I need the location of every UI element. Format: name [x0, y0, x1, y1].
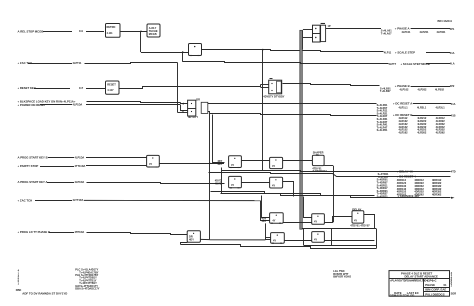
- node title cell IBM CORP: [425, 288, 446, 292]
- node title cell bottom left: [390, 293, 415, 297]
- gate U1 (REL STOP latch): [106, 24, 121, 38]
- svg-text:4LPT11: 4LPT11: [73, 61, 83, 65]
- gate U18: [271, 233, 285, 244]
- wire L1 left segment: [43, 31, 72, 33]
- gate U8 (prog start OR): [147, 155, 160, 167]
- node net label on L10: [75, 230, 85, 234]
- wire L10 to gate U17: [87, 233, 188, 235]
- wire L8 left segment: [47, 182, 74, 184]
- node junction J3 on U1-U3 wire: [182, 51, 184, 53]
- title block divider h1: [389, 278, 450, 280]
- gate U2 (inverter block): [147, 24, 160, 37]
- node L9 signal label + ZAC TCH (second): [18, 198, 33, 202]
- svg-text:4Y: 4Y: [272, 183, 275, 187]
- svg-text:4LP1DA: 4LP1DA: [75, 180, 85, 184]
- wire U6 output phase B line: [283, 84, 380, 86]
- svg-text:+ ZAC TCH: + ZAC TCH: [18, 198, 33, 202]
- wire FF U5 input stub 1: [303, 29, 313, 31]
- svg-text:4LR362: 4LR362: [436, 131, 446, 135]
- wire vertical from bus B4 to U15 input: [304, 197, 312, 218]
- node L4 signal label + BLKSPACE LOAD KEY: [18, 100, 76, 104]
- wire U13 output down to bus: [283, 182, 294, 197]
- wire L7 left segment: [40, 166, 74, 168]
- svg-text:BD4 4A2111: BD4 4A2111: [438, 19, 453, 23]
- node O8 label + DC RESET: [397, 174, 416, 178]
- node net label on L7: [75, 164, 86, 168]
- svg-text:4LA: 4LA: [450, 62, 455, 66]
- node O6 destination tag: [451, 113, 456, 117]
- node net label on L8: [75, 180, 85, 184]
- wire L7 to gate U8: [86, 165, 147, 167]
- svg-text:4Y: 4Y: [231, 183, 234, 187]
- svg-text:+ DC RESET 4: + DC RESET 4: [397, 174, 416, 178]
- wire L6 left segment: [48, 157, 74, 159]
- wire feedback loop right vertical: [376, 229, 378, 249]
- wire scale step mcgb long line: [183, 62, 389, 64]
- svg-text:4LPT7: 4LPT7: [389, 62, 397, 66]
- wire O2 right segment: [426, 52, 450, 54]
- node O6 label + DC RESET B: [393, 113, 412, 117]
- node title row 2: [405, 274, 438, 278]
- wire bus B4: [221, 194, 451, 198]
- wire L2 long line to corner: [85, 63, 178, 64]
- svg-text:PUL) DBEDGS: PUL) DBEDGS: [425, 292, 444, 296]
- node label above U11 SHAPER: [313, 151, 324, 157]
- gate U10 (advance gate B): [270, 157, 283, 168]
- svg-text:+PLA4YDYTDFDAN4RRDYLT4D4(1P4)+: +PLA4YDYTDFDAN4RRDYLT4D4(1P4)+C: [390, 278, 437, 282]
- svg-text:SOR: SOR: [451, 291, 457, 295]
- wire vertical net V2 from U7 output B down: [209, 114, 211, 240]
- svg-text:4LR262: 4LR262: [417, 131, 427, 135]
- node O4 label + PHASE B: [395, 84, 410, 88]
- svg-text:41B: 41B: [451, 113, 456, 117]
- wire O3 right segment: [426, 63, 450, 65]
- svg-text:4Y: 4Y: [314, 220, 317, 224]
- wire L9 left segment: [35, 200, 72, 202]
- svg-text:117: 117: [79, 86, 84, 90]
- node O3 label + SCALE STEP MCGB: [401, 62, 430, 66]
- svg-text:4LP11: 4LP11: [384, 51, 392, 55]
- node title row 1: [401, 272, 433, 276]
- svg-text:A PROG START KEY A: A PROG START KEY A: [18, 180, 48, 184]
- wire FF U5 input stub 2: [303, 37, 313, 39]
- wire U14 output to U15: [283, 222, 312, 224]
- title block divider v1: [423, 278, 425, 296]
- svg-text:4Y: 4Y: [273, 239, 276, 243]
- svg-text:+ RESET KEY: + RESET KEY: [18, 86, 36, 90]
- gate U17 (phase gate): [187, 231, 200, 242]
- node O6 net name table: [399, 116, 446, 134]
- wire U7 output B (DC reset B): [208, 112, 377, 116]
- node O2 label + SCALE STEP: [395, 51, 415, 55]
- node net label on L9: [73, 198, 84, 202]
- wire U5 output phase A line: [326, 28, 381, 30]
- svg-text:4LR3L1: 4LR3L1: [436, 106, 446, 110]
- svg-text:S+4LR51: S+4LR51: [377, 128, 388, 132]
- node O4 net name row: [400, 88, 445, 92]
- svg-text:4DYD: 4DYD: [215, 181, 222, 185]
- wire U7 output A (DC reset A): [208, 103, 377, 105]
- svg-text:4Y: 4Y: [272, 219, 275, 223]
- svg-text:+ SCALE STEP MCGB: + SCALE STEP MCGB: [401, 62, 430, 66]
- gate U15: [312, 214, 325, 225]
- svg-text:+ PHASE B: + PHASE B: [395, 84, 410, 88]
- node label above U16 DELAY: [352, 207, 361, 211]
- node net label on L2: [73, 61, 83, 65]
- wire bus B1 (cluster to delay): [222, 171, 451, 172]
- wire vertical net V1 from J2 down to DC reset A line: [262, 50, 264, 171]
- svg-text:4DR362: 4DR362: [432, 193, 442, 197]
- node bottom center legend: [333, 269, 351, 278]
- svg-text:+ DC RESET A: + DC RESET A: [393, 102, 412, 106]
- svg-text:ADF TO DV RAMNDA ST DVY1YD: ADF TO DV RAMNDA ST DVY1YD: [22, 292, 67, 296]
- node O9 arrowhead: [451, 197, 455, 199]
- wire vertical J3 down: [182, 52, 184, 62]
- gate U11 (shaper): [312, 155, 324, 165]
- node O4 net names stack: [380, 86, 391, 93]
- node L8 signal label + PROG START KEY A: [18, 180, 48, 184]
- wire U10 output to U11: [283, 160, 313, 162]
- svg-text:PHASE: PHASE: [425, 283, 435, 287]
- wire L5 stub into U7: [181, 105, 188, 111]
- wire U12 output to U13: [241, 182, 269, 184]
- flip-flop U7 (DC reset FF) pin marks: [182, 102, 184, 114]
- node label under U11: [312, 167, 327, 173]
- svg-text:111: 111: [79, 29, 84, 33]
- node pin labels at U12 input: [215, 178, 222, 185]
- node net label on L6: [75, 155, 85, 159]
- svg-text:+ PHASE A: + PHASE A: [395, 27, 410, 31]
- svg-text:+ DELAY 4X: + DELAY 4X: [397, 169, 413, 173]
- wire L3 left segment: [34, 88, 70, 90]
- svg-text:4.117: 4.117: [107, 88, 114, 92]
- wire vertical from L2 corner to FF U7 input: [177, 63, 179, 113]
- wire U3 output long line (scale step): [202, 50, 384, 52]
- wire bottom rail R1 (to U18): [210, 239, 266, 241]
- delay element U16: [352, 211, 364, 223]
- wire U18 input stub: [266, 237, 271, 239]
- node O5 net name row: [399, 106, 446, 110]
- svg-text:4LP101: 4LP101: [402, 30, 412, 34]
- wire L4 segment to FF U7: [87, 102, 181, 103]
- wire feedback loop left vertical: [303, 229, 305, 246]
- wire feedback loop inner vertical: [331, 229, 333, 246]
- gate U3 (single-shot): [189, 44, 202, 56]
- node bottom caption row: [22, 292, 67, 296]
- svg-text:4LP201: 4LP201: [420, 30, 430, 34]
- node O2 destination tag: [450, 51, 455, 55]
- wire L5 segment to FF U7: [86, 104, 180, 106]
- svg-text:4Y: 4Y: [354, 219, 357, 223]
- node O5 destination tag: [451, 102, 456, 106]
- svg-text:RETRO: RETRO: [107, 25, 116, 29]
- gate U9 (advance gate A): [229, 156, 242, 168]
- node L5 signal label + POWER ON RESET: [18, 103, 46, 107]
- wire L10 left segment: [49, 232, 74, 234]
- wire vertical V5: [221, 168, 223, 195]
- wire J1 to gate U3: [141, 52, 189, 54]
- svg-text:4DY: 4DY: [262, 219, 267, 223]
- power rail thick vertical bus: [300, 30, 303, 229]
- svg-text:S+4DR31: S+4DR31: [377, 195, 389, 199]
- node label under U6: [263, 95, 284, 99]
- wire L6 to gate U8: [86, 157, 147, 159]
- node title cell DATE LAST EC: [394, 291, 419, 295]
- title block divider h3: [424, 291, 450, 293]
- node L2 signal label + ZAC TCH: [18, 61, 33, 65]
- wire J1 down: [140, 31, 142, 52]
- wire vertical V6 from bus B3 to U14: [262, 196, 270, 218]
- svg-text:DR: DR: [196, 97, 200, 101]
- node O3 net label: [389, 62, 397, 66]
- wire L1 to gate U1: [86, 31, 104, 33]
- svg-text:4Y: 4Y: [272, 164, 275, 168]
- svg-text:1P: 1P: [328, 24, 331, 28]
- node bottom-left revision column: [18, 269, 20, 286]
- node net label on L5: [73, 102, 83, 106]
- node title cell PHASE 01: [425, 283, 447, 287]
- node O5-O6 left net names column: [377, 103, 388, 132]
- svg-text:A REL STOP MCGB: A REL STOP MCGB: [18, 29, 44, 33]
- svg-text:MCGB: MCGB: [149, 32, 157, 36]
- title block divider h2: [424, 287, 450, 289]
- svg-text:4DY: 4DY: [217, 162, 222, 166]
- node O9 label: [398, 194, 420, 198]
- svg-text:DBK: DBK: [16, 288, 22, 292]
- svg-text:4LP301: 4LP301: [437, 30, 447, 34]
- pin label U5 out: [328, 24, 331, 28]
- node L1 signal label A REL STOP MCGB: [18, 29, 44, 33]
- gate U19: [312, 232, 325, 243]
- node O8 net name table: [397, 178, 442, 196]
- node L7 signal label + PARITY STOP: [18, 164, 39, 168]
- node O8 left net names column: [377, 178, 389, 199]
- wire U11 output: [324, 165, 333, 167]
- node label under U16: [350, 223, 370, 227]
- svg-text:ORMAYB EDYLOD: ORMAYB EDYLOD: [390, 293, 415, 297]
- svg-text:DBA S+4TDADC17Y: DBA S+4TDADC17Y: [75, 287, 99, 291]
- svg-text:4LP102: 4LP102: [400, 88, 410, 92]
- wire O4 right segment: [411, 86, 450, 88]
- svg-text:01: 01: [444, 283, 448, 287]
- wire L4 stub into U7: [181, 103, 188, 104]
- svg-text:+ ADVANCE 4DY: + ADVANCE 4DY: [398, 194, 420, 198]
- svg-text:41A: 41A: [450, 51, 455, 55]
- node junction J4: [209, 163, 211, 165]
- node O2 net label: [384, 51, 392, 55]
- svg-text:41A: 41A: [451, 102, 456, 106]
- svg-text:+ SCALE STEP: + SCALE STEP: [395, 51, 415, 55]
- node O7 label + DELAY: [397, 169, 413, 173]
- wire U9 output to U10: [241, 160, 269, 162]
- flip-flop U5 (phase A FF): [313, 25, 321, 42]
- wire O6 right segment: [412, 115, 451, 117]
- wire vertical V7 to U18 inputs: [265, 223, 267, 240]
- svg-text:4LTT1DA: 4LTT1DA: [73, 198, 84, 202]
- node O7 net names stack: [378, 172, 389, 179]
- svg-text:A PROG START KEY B: A PROG START KEY B: [18, 156, 48, 160]
- wire feedback loop bottom edge: [304, 245, 377, 247]
- svg-text:4LP1DA: 4LP1DA: [75, 155, 85, 159]
- svg-text:4P1: 4P1: [450, 27, 455, 31]
- svg-text:BWYOR YOHO: BWYOR YOHO: [333, 275, 351, 279]
- node bottom-left tag DBK: [16, 288, 22, 292]
- node net label 4LP11 on L1: [79, 29, 84, 33]
- node O1 destination tag: [450, 27, 455, 31]
- gate U14: [270, 213, 284, 224]
- node top-right sheet reference: [438, 19, 453, 23]
- svg-text:4DYDTY: 4DYDTY: [188, 115, 198, 119]
- wire U8 output to gate U9: [159, 163, 224, 165]
- wire feedback loop horizontal: [302, 228, 377, 230]
- wire U4 output jog: [119, 87, 261, 89]
- wire U17 output to bottom rail: [200, 238, 209, 240]
- node title code row: [390, 278, 437, 282]
- svg-text:+ PROG LD TT PHASE B: + PROG LD TT PHASE B: [18, 230, 51, 234]
- svg-text:+ PARITY STOP: + PARITY STOP: [18, 164, 39, 168]
- gate U4 (reset key block): [106, 81, 120, 94]
- node L3 signal label + RESET KEY: [18, 86, 36, 90]
- svg-text:4LR1L1: 4LR1L1: [399, 106, 409, 110]
- node O4 destination tag: [450, 84, 455, 88]
- node junction J2 on U3 output: [262, 49, 264, 51]
- wire U18 input stub 2: [265, 239, 270, 241]
- node O5 label + DC RESET A: [393, 102, 412, 106]
- node L10 signal label + PROG LD TT PHASE B: [18, 230, 51, 234]
- flip-flop U6 (phase B FF): [269, 80, 282, 94]
- wire vertical from L9 down to gate U14: [261, 201, 270, 221]
- node O1 net name row: [402, 30, 447, 34]
- wire U1 output to U2: [120, 31, 147, 33]
- node junction J1: [140, 31, 142, 33]
- svg-text:+|: +|: [182, 109, 184, 113]
- svg-text:T+4LA07: T+4LA07: [381, 31, 392, 35]
- node net label on L3: [79, 86, 84, 90]
- svg-text:4TT11DA: 4TT11DA: [75, 164, 86, 168]
- title block frame: [389, 271, 450, 297]
- node title block side tag SOR: [451, 291, 457, 295]
- wire bus B2: [209, 173, 451, 177]
- svg-text:4Y: 4Y: [149, 162, 152, 166]
- wire O1 right segment: [411, 28, 450, 30]
- gate U12 (advance gate C): [229, 176, 242, 187]
- node pin labels at U9 input: [217, 159, 222, 166]
- svg-text:4Y: 4Y: [314, 238, 317, 242]
- wire L8 to gate U12: [87, 183, 225, 184]
- svg-text:4DYDTY DTYDDY: 4DYDTY DTYDDY: [263, 95, 284, 99]
- svg-text:4TDY01 4TDY07: 4TDY01 4TDY07: [350, 223, 370, 227]
- wire U15 output to delay U16: [325, 217, 353, 223]
- node pin labels at U14 input: [262, 216, 267, 223]
- svg-text:4TD: 4TD: [451, 169, 456, 173]
- node O7 destination tag: [451, 169, 456, 173]
- wire bus B3: [211, 192, 375, 196]
- node title cell PUL: [425, 292, 444, 296]
- wire L5 left segment: [40, 104, 72, 106]
- wire vertical stub to FF U5 inputs: [302, 30, 304, 49]
- gate U13: [270, 177, 283, 188]
- wire vertical V4 at x=333: [333, 166, 335, 223]
- svg-text:4LP1DA: 4LP1DA: [73, 102, 83, 106]
- svg-text:4LP302: 4LP302: [435, 88, 445, 92]
- svg-text:4LR2L1: 4LR2L1: [417, 106, 427, 110]
- node O3 destination tag: [450, 62, 455, 66]
- wire U18 output to U19: [284, 240, 311, 242]
- svg-text:4P2: 4P2: [450, 84, 455, 88]
- node title block right side column: [451, 271, 453, 288]
- wire L3 to gate U4: [86, 88, 106, 90]
- wire L9 long segment: [84, 199, 260, 201]
- wire O5 right segment: [413, 103, 451, 105]
- node L6 signal label + PROG START KEY B: [18, 156, 48, 160]
- wire U16 output feedback loop: [364, 215, 375, 229]
- svg-text:4.111: 4.111: [107, 31, 114, 35]
- node O1 label + PHASE A: [395, 27, 410, 31]
- svg-text:4LR162: 4LR162: [399, 131, 409, 135]
- node bottom net list block: [75, 268, 99, 291]
- flip-flop U7 (DC reset FF): [188, 100, 196, 116]
- svg-text:+|: +|: [182, 102, 184, 106]
- wire J3 stub into U7: [178, 112, 188, 114]
- flip-flop U6 (phase B FF) input stubs: [261, 84, 269, 86]
- svg-text:T+4LB07: T+4LB07: [380, 89, 391, 93]
- svg-text:4TP1DA: 4TP1DA: [75, 230, 85, 234]
- wire L2 left segment: [28, 63, 72, 65]
- node label under U7: [188, 115, 198, 119]
- svg-text:DELAY START ADVANCE: DELAY START ADVANCE: [405, 274, 438, 278]
- svg-text:RESET: RESET: [107, 83, 116, 87]
- svg-text:4DY: 4DY: [189, 237, 194, 241]
- wire U19 output to loop vertical: [324, 240, 374, 242]
- wire U17 bottom hook: [181, 243, 188, 245]
- wire vertical from DC reset B line to U9 input: [213, 115, 225, 163]
- svg-text:4Y: 4Y: [231, 163, 234, 167]
- svg-text:4LP202: 4LP202: [418, 88, 428, 92]
- wire bottom long rail R2: [181, 245, 377, 249]
- node label above U7: [196, 97, 200, 101]
- node O1 output net names stack: [381, 29, 392, 36]
